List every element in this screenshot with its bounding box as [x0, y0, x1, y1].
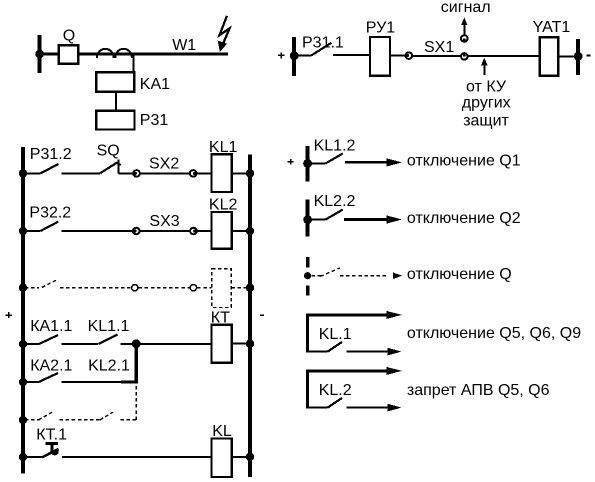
svg-text:KL1.2: KL1.2 — [314, 137, 356, 154]
svg-text:отключение Q5, Q6, Q9: отключение Q5, Q6, Q9 — [407, 325, 581, 342]
svg-text:КТ.1: КТ.1 — [36, 427, 67, 444]
svg-text:YAT1: YAT1 — [533, 19, 571, 36]
svg-text:W1: W1 — [172, 37, 196, 54]
svg-text:KL.2: KL.2 — [319, 382, 352, 399]
svg-text:отключение Q2: отключение Q2 — [407, 210, 521, 227]
svg-text:Р31.1: Р31.1 — [302, 35, 344, 52]
svg-text:KL.1: KL.1 — [319, 326, 352, 343]
svg-text:Р31.2: Р31.2 — [30, 146, 72, 163]
svg-text:KA1: KA1 — [140, 76, 170, 93]
svg-text:KL: KL — [212, 423, 232, 440]
svg-text:других: других — [462, 95, 511, 112]
svg-text:KL2: KL2 — [209, 196, 238, 213]
svg-text:отключение Q1: отключение Q1 — [407, 152, 521, 169]
svg-text:КА1.1: КА1.1 — [30, 318, 72, 335]
svg-text:отключение Q: отключение Q — [407, 266, 512, 283]
svg-text:SX2: SX2 — [149, 156, 179, 173]
svg-text:КТ: КТ — [211, 310, 230, 327]
svg-text:KL2.1: KL2.1 — [88, 357, 130, 374]
svg-text:Q: Q — [63, 27, 75, 44]
svg-text:КА2.1: КА2.1 — [30, 357, 72, 374]
svg-text:РУ1: РУ1 — [366, 19, 395, 36]
svg-text:Р32.2: Р32.2 — [29, 204, 71, 221]
svg-text:запрет АПВ Q5, Q6: запрет АПВ Q5, Q6 — [407, 382, 550, 399]
svg-text:сигнал: сигнал — [441, 0, 491, 16]
svg-text:SX3: SX3 — [149, 213, 179, 230]
svg-text:KL2.2: KL2.2 — [314, 193, 356, 210]
svg-text:защит: защит — [463, 113, 509, 130]
svg-text:SX1: SX1 — [424, 39, 454, 56]
svg-text:KL1: KL1 — [209, 139, 238, 156]
svg-text:KL1.1: KL1.1 — [88, 318, 130, 335]
svg-text:от КУ: от КУ — [466, 79, 507, 96]
svg-text:SQ: SQ — [97, 143, 120, 160]
svg-text:Р31: Р31 — [140, 112, 169, 129]
